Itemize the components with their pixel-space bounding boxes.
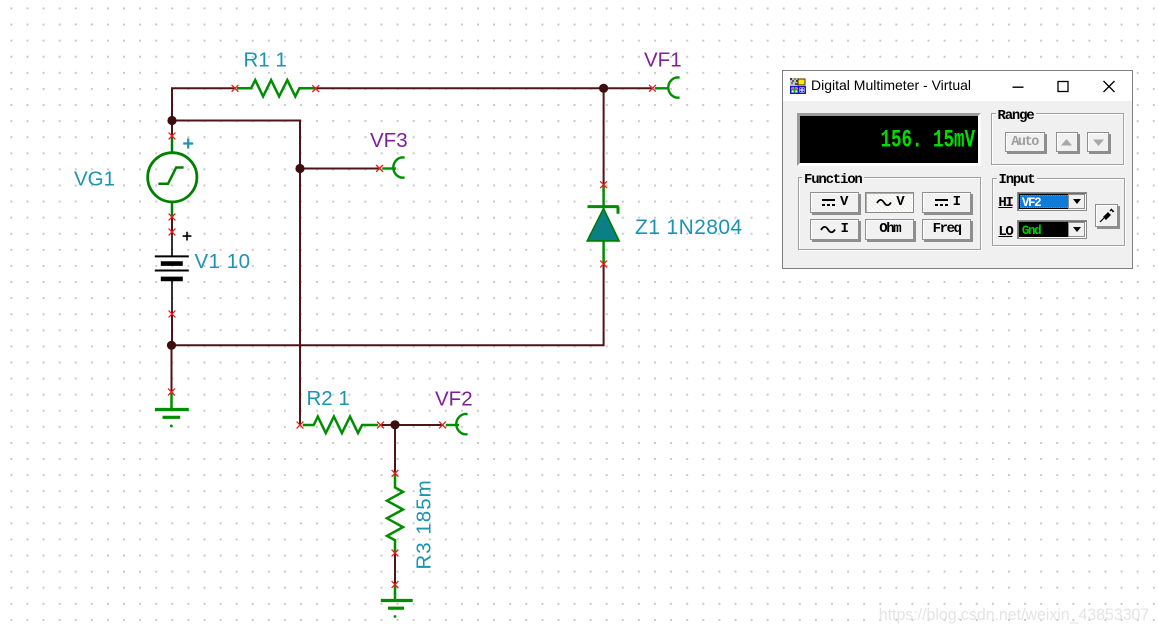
plus sign VG1: [183, 139, 193, 149]
LO label: [998, 225, 1012, 239]
close button: [1092, 71, 1126, 101]
node VF3 branch: [295, 164, 304, 173]
wire battery bottom to ground node: [171, 314, 173, 345]
svg-text:VF3: VF3: [370, 129, 408, 152]
wire R2 right to VF2: [381, 424, 443, 426]
wire node to ground1: [171, 345, 173, 392]
Function group: [798, 177, 981, 250]
watermark: [879, 605, 1149, 625]
zener diode Z1: [587, 185, 619, 264]
button DC I: [922, 192, 971, 213]
probe VF2: [446, 414, 468, 434]
button Freq: [922, 219, 971, 240]
display reading: [880, 127, 975, 152]
svg-text:R1 1: R1 1: [244, 48, 287, 71]
node bottom rail / ground: [167, 341, 176, 350]
wire node to R3 top: [394, 425, 396, 473]
ground 2: [381, 585, 413, 618]
svg-text:VF1: VF1: [644, 49, 682, 72]
svg-text:Z1 1N2804: Z1 1N2804: [635, 216, 743, 239]
LCD display panel: [797, 113, 981, 166]
voltage generator VG1: [148, 136, 197, 217]
button Ohm: [865, 219, 914, 240]
node R2 / R3 / VF2: [390, 420, 399, 429]
down arrow button: [1087, 132, 1109, 152]
svg-text:V1 10: V1 10: [195, 250, 251, 273]
title bar: [783, 71, 1132, 101]
pin cross marks (red x): [168, 85, 656, 588]
wire node to VF3: [300, 168, 380, 170]
HI label: [998, 196, 1012, 210]
wire R1 right to VF1: [316, 87, 652, 89]
button AC V (pressed): [865, 192, 914, 213]
maximize button: [1046, 71, 1080, 101]
resistor R3 (vertical): [387, 473, 403, 553]
svg-text:VF2: VF2: [435, 387, 473, 410]
window icon: [790, 78, 806, 94]
wire branch node to x=300: [172, 121, 300, 426]
resistor R1: [237, 80, 316, 96]
svg-text:R3 185m: R3 185m: [413, 479, 436, 569]
LO combobox: [1017, 220, 1088, 240]
button DC V: [810, 192, 859, 213]
wire zener top to top rail: [603, 88, 605, 184]
up arrow button: [1056, 132, 1078, 152]
wire VG1 bottom to battery top: [171, 217, 173, 232]
probe VF1: [655, 77, 680, 97]
Range group: [991, 113, 1124, 165]
HI combobox: [1017, 192, 1088, 212]
resistor R2: [303, 417, 378, 433]
svg-text:R2 1: R2 1: [307, 387, 350, 410]
ground 1: [155, 392, 189, 427]
Auto button (disabled): [1005, 132, 1045, 152]
wire bottom rail: [172, 264, 604, 345]
Input group: [992, 178, 1125, 247]
probe select button: [1095, 204, 1118, 227]
minimize button: [1001, 71, 1035, 101]
multimeter window: [782, 70, 1133, 269]
button AC I: [810, 219, 859, 240]
svg-text:VG1: VG1: [74, 167, 115, 190]
node top rail / zener: [599, 84, 608, 93]
title text: [811, 77, 971, 93]
wire R3 bottom to ground2: [394, 553, 396, 585]
probe VF3: [382, 157, 404, 177]
battery V1: [155, 232, 189, 314]
plus sign V1: [183, 232, 192, 241]
node at top-left branch: [167, 116, 176, 125]
wire top-left corner to R1 left: [172, 88, 235, 136]
